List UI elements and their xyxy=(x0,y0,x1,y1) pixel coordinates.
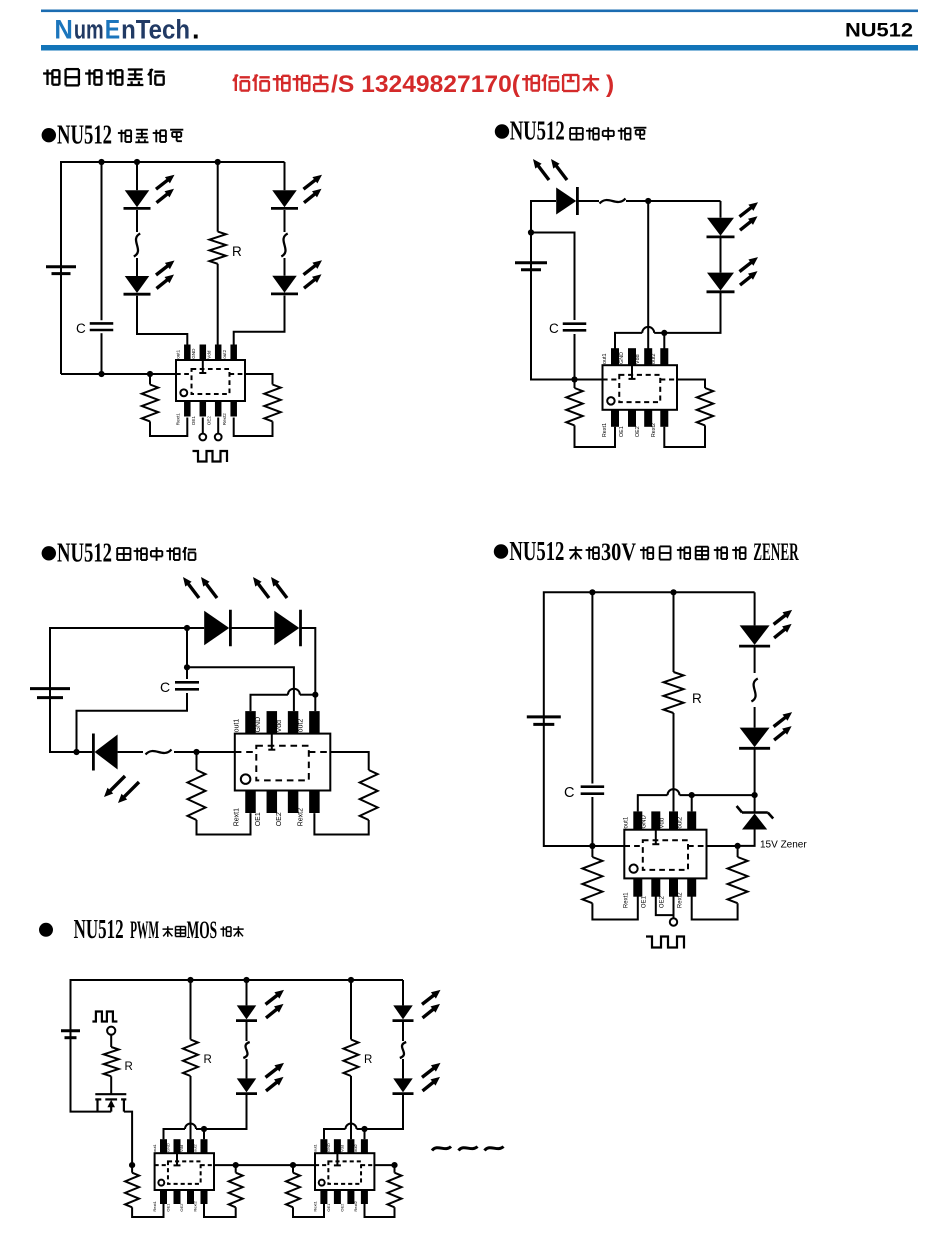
svg-text:C: C xyxy=(76,321,86,336)
junction dot xyxy=(187,977,193,983)
svg-text:NU512: NU512 xyxy=(74,914,124,944)
svg-text:NU512: NU512 xyxy=(57,538,112,568)
IC U1 NU512 xyxy=(234,711,331,826)
junction dot xyxy=(528,229,534,235)
wire xyxy=(101,333,103,374)
LED light arrows xyxy=(774,712,793,740)
wire to out1 xyxy=(137,296,187,345)
wire to Vdd chip2 xyxy=(350,1076,352,1139)
wire Rext1 xyxy=(131,1165,133,1173)
junction dot xyxy=(689,792,695,798)
capacitor C xyxy=(175,682,199,689)
wire Rext2 xyxy=(737,846,739,857)
LED light arrows xyxy=(266,990,285,1018)
wire xyxy=(77,693,188,752)
svg-text:GND: GND xyxy=(642,815,648,829)
svg-text:out2: out2 xyxy=(298,719,305,733)
wire OE2 xyxy=(673,897,675,919)
junction dot xyxy=(184,664,190,670)
wire xyxy=(707,845,738,847)
wire to Vdd xyxy=(673,713,675,811)
svg-text:Rext2: Rext2 xyxy=(678,892,684,908)
junction dot xyxy=(661,330,667,336)
wire Rext2 xyxy=(245,374,273,385)
wire Rext1 chip2 xyxy=(292,1165,294,1173)
junction dot xyxy=(589,589,595,595)
LED D1 xyxy=(124,190,151,208)
svg-text:out2: out2 xyxy=(353,1143,358,1152)
LED D2 xyxy=(124,276,151,294)
wire to node xyxy=(301,628,315,695)
wire Rext1 return xyxy=(592,897,637,920)
junction dot xyxy=(571,376,577,382)
wire out1 tie xyxy=(638,795,668,811)
svg-text:Rext2: Rext2 xyxy=(298,808,305,826)
wire xyxy=(402,1021,404,1041)
wire Rext2 return chip2 xyxy=(365,1204,395,1217)
LED D2 xyxy=(739,728,770,749)
wire out1 tie xyxy=(251,695,288,711)
wire Rext1 return chip2 xyxy=(293,1204,324,1217)
wire xyxy=(720,237,722,273)
header bottom rule xyxy=(41,45,918,51)
bullet xyxy=(495,124,509,138)
LED light arrows xyxy=(266,1063,285,1091)
svg-text:out1: out1 xyxy=(313,1143,318,1152)
wire Rext1 return xyxy=(132,1204,163,1217)
wire Rext2 chip2 xyxy=(394,1165,396,1173)
wire xyxy=(402,1059,404,1078)
IC U2 NU512 xyxy=(313,1139,375,1211)
wire Rext2 xyxy=(677,380,705,389)
svg-text:E: E xyxy=(105,15,120,45)
svg-text:R: R xyxy=(364,1054,372,1066)
ellipsis squiggle xyxy=(146,750,172,755)
junction dot xyxy=(215,159,221,165)
svg-text:NU512: NU512 xyxy=(509,536,564,566)
wire xyxy=(579,200,600,202)
junction dot xyxy=(670,589,676,595)
LED D4 xyxy=(393,1078,414,1093)
resistor Rext1 xyxy=(142,385,158,422)
wire xyxy=(626,200,721,202)
resistor Rext1 chip2 xyxy=(286,1173,300,1208)
svg-text:OE2: OE2 xyxy=(179,1203,184,1212)
wire xyxy=(118,751,143,753)
ellipsis squiggle xyxy=(400,1042,406,1058)
junction dot xyxy=(361,1126,367,1132)
svg-text:NU512: NU512 xyxy=(510,116,565,146)
wire to Vdd xyxy=(217,264,219,345)
wire OE1 xyxy=(202,418,204,434)
svg-text:OE1: OE1 xyxy=(326,1203,331,1212)
svg-text:C: C xyxy=(549,321,559,336)
wire xyxy=(196,1128,204,1130)
LED D3 xyxy=(393,1005,414,1020)
wire xyxy=(754,647,756,674)
svg-text:Vdd: Vdd xyxy=(276,720,283,733)
resistor R chip2 xyxy=(344,1040,359,1077)
junction dot xyxy=(98,371,104,377)
svg-text:GND: GND xyxy=(191,348,196,359)
wire Rext1 xyxy=(591,846,593,857)
PWM terminal xyxy=(107,1027,115,1035)
wire Vdd branch xyxy=(647,201,649,349)
wire zener return xyxy=(738,830,755,846)
svg-text:OE2: OE2 xyxy=(635,426,641,437)
svg-text:OE1: OE1 xyxy=(255,812,262,826)
wire xyxy=(110,1076,112,1094)
wire xyxy=(136,210,138,232)
svg-text:GND: GND xyxy=(326,1143,331,1152)
svg-text:out1: out1 xyxy=(234,719,241,733)
wire out2 drop chip2 xyxy=(364,1129,366,1139)
wire bottom rail xyxy=(544,717,625,846)
LED light arrows xyxy=(422,990,441,1018)
wire hop xyxy=(668,789,680,795)
svg-text:um: um xyxy=(74,15,104,45)
resistor R xyxy=(183,1040,198,1077)
svg-text:): ) xyxy=(606,71,614,98)
junction dot xyxy=(73,749,79,755)
junction dot xyxy=(348,977,354,983)
wire Rext2 return xyxy=(204,1204,236,1217)
wire xyxy=(754,749,756,795)
svg-text:Rext1: Rext1 xyxy=(152,1200,157,1211)
wire row rail xyxy=(214,1164,315,1166)
resistor R gate xyxy=(104,1047,119,1076)
svg-text:Rext1: Rext1 xyxy=(624,892,630,908)
wire to out2 xyxy=(204,1094,247,1129)
resistor Rext2 xyxy=(728,857,748,903)
LED light arrows xyxy=(156,261,175,289)
svg-text:Rext2: Rext2 xyxy=(193,1200,198,1211)
LED light arrows xyxy=(533,159,567,180)
svg-text:GND: GND xyxy=(255,717,262,733)
svg-text:MOS: MOS xyxy=(187,917,218,944)
wire xyxy=(136,258,138,276)
battery B1 xyxy=(46,267,76,274)
svg-text:OE2: OE2 xyxy=(340,1203,345,1212)
svg-text:out2: out2 xyxy=(193,1143,198,1152)
wire xyxy=(284,258,286,276)
wire top rail xyxy=(61,162,285,374)
wire to out2 xyxy=(664,293,720,333)
bullet xyxy=(42,546,56,560)
junction dot xyxy=(290,1162,296,1168)
wire zener xyxy=(754,795,756,812)
wire xyxy=(680,794,755,796)
wire xyxy=(754,707,756,728)
wire LED string xyxy=(754,592,756,625)
IC U1 NU512 xyxy=(176,345,245,426)
LED D3 xyxy=(707,273,735,292)
wire top rail xyxy=(50,628,204,688)
LED D2 xyxy=(707,218,735,237)
wire bottom rail xyxy=(531,263,603,380)
svg-text:OE2: OE2 xyxy=(659,895,665,908)
wire xyxy=(300,694,315,696)
resistor R xyxy=(210,232,226,264)
svg-text:out2: out2 xyxy=(222,349,227,358)
svg-text:out1: out1 xyxy=(624,816,630,828)
IC U1 NU512 xyxy=(152,1139,214,1211)
wire LED string 1 xyxy=(246,980,248,1005)
LED light arrows xyxy=(304,175,323,203)
resistor Rext1 xyxy=(125,1173,139,1208)
wire capacitor branch xyxy=(531,233,575,321)
junction dot xyxy=(233,1162,239,1168)
svg-text:Vdd: Vdd xyxy=(340,1145,345,1152)
wire xyxy=(50,689,77,752)
wire xyxy=(232,627,275,629)
svg-text:out2: out2 xyxy=(651,354,657,365)
wire to Vdd xyxy=(190,1076,192,1139)
svg-text:C: C xyxy=(564,785,574,801)
LED D2 xyxy=(274,610,300,647)
wire top rail xyxy=(544,592,755,716)
resistor Rext1 xyxy=(188,770,206,820)
LED light arrows xyxy=(422,1063,441,1091)
junction dot xyxy=(147,371,153,377)
junction dot xyxy=(243,977,249,983)
wire R branch xyxy=(190,980,192,1040)
wire out1 tie xyxy=(164,1129,186,1139)
battery B1 xyxy=(527,717,561,725)
wire out2 drop xyxy=(203,1129,205,1139)
square wave symbol xyxy=(646,937,684,949)
svg-text:OE1: OE1 xyxy=(191,416,196,426)
wire xyxy=(574,334,576,380)
ellipsis squiggle xyxy=(281,234,287,257)
wire Vdd branch xyxy=(187,667,294,711)
junction dot xyxy=(752,792,758,798)
wire Rext2 xyxy=(330,752,368,770)
wire Rext1 return xyxy=(197,813,251,834)
square wave symbol xyxy=(193,451,228,462)
svg-text:/S 13249827170(: /S 13249827170( xyxy=(331,71,521,98)
wire R branch chip2 xyxy=(350,980,352,1040)
svg-text:15V Zener: 15V Zener xyxy=(760,840,807,851)
red contact line 诚信联科古/S 13249827170(微信同步） xyxy=(233,75,250,92)
junction dot xyxy=(184,625,190,631)
wire xyxy=(110,1035,112,1047)
resistor Rext2 xyxy=(264,385,280,422)
svg-text:R: R xyxy=(692,691,702,706)
ellipsis squiggle xyxy=(751,679,757,702)
wire xyxy=(591,797,593,846)
svg-text:ZENER: ZENER xyxy=(753,539,799,566)
wire battery branch xyxy=(530,233,532,263)
wire Rext2 xyxy=(235,1165,237,1173)
svg-text:OE2: OE2 xyxy=(276,812,283,826)
LED D1 xyxy=(204,610,230,647)
terminal OE2 xyxy=(670,918,677,925)
svg-text:R: R xyxy=(232,244,242,259)
svg-text:Rext1: Rext1 xyxy=(234,808,241,826)
LED light arrows xyxy=(774,610,793,638)
terminal OE1 xyxy=(199,434,206,441)
wire hop xyxy=(642,327,654,333)
LED light arrows xyxy=(104,776,139,803)
svg-text:GND: GND xyxy=(166,1143,171,1152)
LED D1 xyxy=(556,187,577,215)
wire top rail xyxy=(71,980,404,1030)
wire capacitor branch xyxy=(591,592,593,783)
svg-text:PWM: PWM xyxy=(130,917,159,944)
wire top rail xyxy=(531,201,556,233)
wire Rext1 xyxy=(149,374,151,385)
wire Rext1 return xyxy=(150,418,187,437)
wire capacitor branch xyxy=(101,162,103,320)
junction dot xyxy=(391,1162,397,1168)
wire hop xyxy=(346,1124,357,1130)
LED light arrows xyxy=(156,175,175,203)
svg-text:Rext1: Rext1 xyxy=(313,1200,318,1211)
wire Rext1 xyxy=(196,752,198,770)
LED D3 xyxy=(93,734,117,771)
svg-text:Vdd: Vdd xyxy=(179,1145,184,1152)
wire xyxy=(246,1059,248,1078)
junction dot xyxy=(589,843,595,849)
junction dot xyxy=(201,1126,207,1132)
wire to out2 chip2 xyxy=(365,1094,404,1129)
wire xyxy=(284,210,286,232)
LED light arrows xyxy=(740,257,759,285)
wire out1 tie chip2 xyxy=(324,1129,346,1139)
svg-text:GND: GND xyxy=(619,352,625,364)
LED light arrows xyxy=(183,577,217,598)
capacitor C xyxy=(90,323,114,330)
svg-text:Rext2: Rext2 xyxy=(353,1200,358,1211)
wire R branch xyxy=(673,592,675,672)
wire xyxy=(77,751,94,753)
wire to out2 xyxy=(234,296,285,346)
wire xyxy=(246,1021,248,1041)
bullet xyxy=(39,923,53,937)
battery B1 xyxy=(61,1031,80,1038)
wire Rext2 return xyxy=(314,813,368,834)
resistor Rext2 chip2 xyxy=(388,1173,402,1208)
LED D3 xyxy=(271,190,298,208)
svg-text:30V: 30V xyxy=(601,539,636,566)
wire out2 drop xyxy=(663,333,665,349)
wire Rext2 return xyxy=(692,897,738,920)
LED D2 xyxy=(236,1078,257,1093)
wire R branch xyxy=(217,162,219,232)
wire Rext2 return xyxy=(664,425,705,447)
capacitor C xyxy=(581,787,605,794)
LED light arrows xyxy=(253,577,287,598)
wire Rext1 xyxy=(574,380,576,389)
resistor Rext2 xyxy=(360,770,378,820)
svg-text:out2: out2 xyxy=(678,816,684,828)
header top rule xyxy=(41,10,918,13)
svg-text:R: R xyxy=(125,1061,133,1073)
wire LED string 2 xyxy=(402,980,404,1005)
wire xyxy=(357,1128,365,1130)
wire hop xyxy=(185,1124,196,1130)
resistor Rext1 xyxy=(566,388,582,425)
wire LED string A xyxy=(136,162,138,190)
resistor Rext1 xyxy=(582,857,602,903)
wire out1 tie xyxy=(615,333,642,349)
wire xyxy=(174,751,235,753)
wire LED string B xyxy=(284,162,286,190)
junction dot xyxy=(735,843,741,849)
wire out2 drop xyxy=(691,795,693,811)
junction dot xyxy=(193,749,199,755)
terminal OE2 xyxy=(215,434,222,441)
wire bottom rail xyxy=(61,373,176,375)
svg-text:Rext1: Rext1 xyxy=(176,413,181,425)
zener diode 15V xyxy=(737,806,774,830)
svg-text:C: C xyxy=(160,679,170,695)
junction dot xyxy=(129,1162,135,1168)
svg-text:NU512: NU512 xyxy=(57,120,112,150)
wire xyxy=(654,332,664,334)
resistor Rext2 xyxy=(697,388,713,425)
svg-text:R: R xyxy=(204,1054,212,1066)
junction dot xyxy=(98,159,104,165)
wire MOSFET drain xyxy=(124,1112,132,1166)
LED light arrows xyxy=(304,260,323,288)
svg-text:Rext2: Rext2 xyxy=(651,423,657,437)
svg-text:out1: out1 xyxy=(602,354,608,365)
capacitor C xyxy=(563,324,587,331)
ellipsis squiggle xyxy=(600,199,626,204)
svg-text:Rext2: Rext2 xyxy=(222,413,227,425)
continuation tildes xyxy=(432,1147,504,1151)
PWM waveform symbol xyxy=(92,1012,117,1022)
battery B1 xyxy=(30,689,70,698)
svg-text:OE1: OE1 xyxy=(166,1203,171,1212)
wire hop xyxy=(288,689,300,695)
wire xyxy=(71,1031,112,1112)
svg-text:NU512: NU512 xyxy=(845,21,913,42)
junction dot xyxy=(645,198,651,204)
bullet xyxy=(494,544,508,558)
svg-text:nTech: nTech xyxy=(121,15,190,45)
junction dot xyxy=(312,692,318,698)
wire OE1 xyxy=(656,897,674,916)
wire capacitor chain xyxy=(186,628,188,679)
wire OE2 xyxy=(217,418,219,434)
bullet xyxy=(42,128,56,142)
svg-text:N: N xyxy=(54,15,73,45)
svg-text:out1: out1 xyxy=(176,349,181,358)
svg-text:.: . xyxy=(192,15,200,45)
svg-text:Vdd: Vdd xyxy=(659,818,665,829)
svg-text:OE2: OE2 xyxy=(207,416,212,426)
LED light arrows xyxy=(740,202,759,230)
IC U1 NU512 xyxy=(602,348,677,437)
LED D1 xyxy=(236,1005,257,1020)
svg-text:OE1: OE1 xyxy=(619,426,625,437)
resistor R xyxy=(664,672,684,713)
svg-text:Vdd: Vdd xyxy=(635,354,641,364)
junction dot xyxy=(134,159,140,165)
IC U1 NU512 xyxy=(624,811,707,908)
wire Rext2 return xyxy=(234,418,273,437)
ellipsis squiggle xyxy=(134,234,140,257)
wire LED string xyxy=(720,201,722,218)
wire out2 drop xyxy=(314,695,316,711)
wire Rext1 return xyxy=(575,425,616,447)
section title 應用線路範例 xyxy=(43,70,59,86)
ellipsis squiggle xyxy=(243,1042,249,1058)
MOSFET Q1 xyxy=(95,1094,126,1111)
